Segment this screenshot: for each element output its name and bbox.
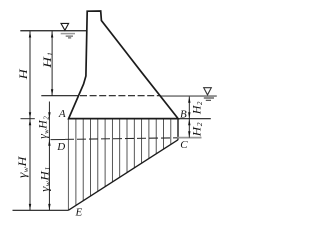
svg-text:γwH: γwH bbox=[15, 155, 30, 178]
svg-text:D: D bbox=[56, 141, 65, 153]
svg-text:B: B bbox=[180, 108, 187, 120]
svg-text:E: E bbox=[75, 207, 83, 217]
svg-text:H: H bbox=[16, 68, 30, 81]
svg-text:C: C bbox=[180, 139, 188, 151]
svg-text:A: A bbox=[58, 108, 66, 120]
